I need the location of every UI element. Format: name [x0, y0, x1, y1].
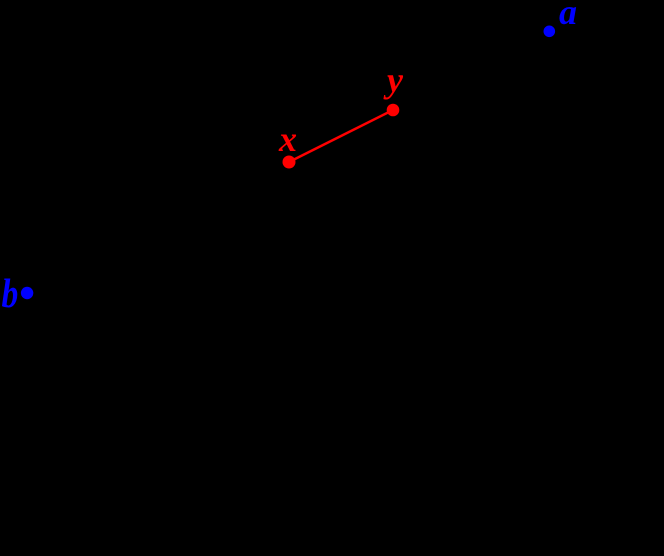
- svg-text:x: x: [278, 119, 297, 159]
- svg-text:y: y: [383, 60, 404, 100]
- wire segment x-y: [289, 110, 393, 162]
- label b: [2, 272, 19, 317]
- node x: [283, 156, 296, 169]
- svg-text:b: b: [2, 272, 19, 317]
- node a: [544, 26, 556, 38]
- node b: [21, 287, 33, 299]
- svg-text:a: a: [559, 0, 577, 32]
- node y: [387, 104, 400, 117]
